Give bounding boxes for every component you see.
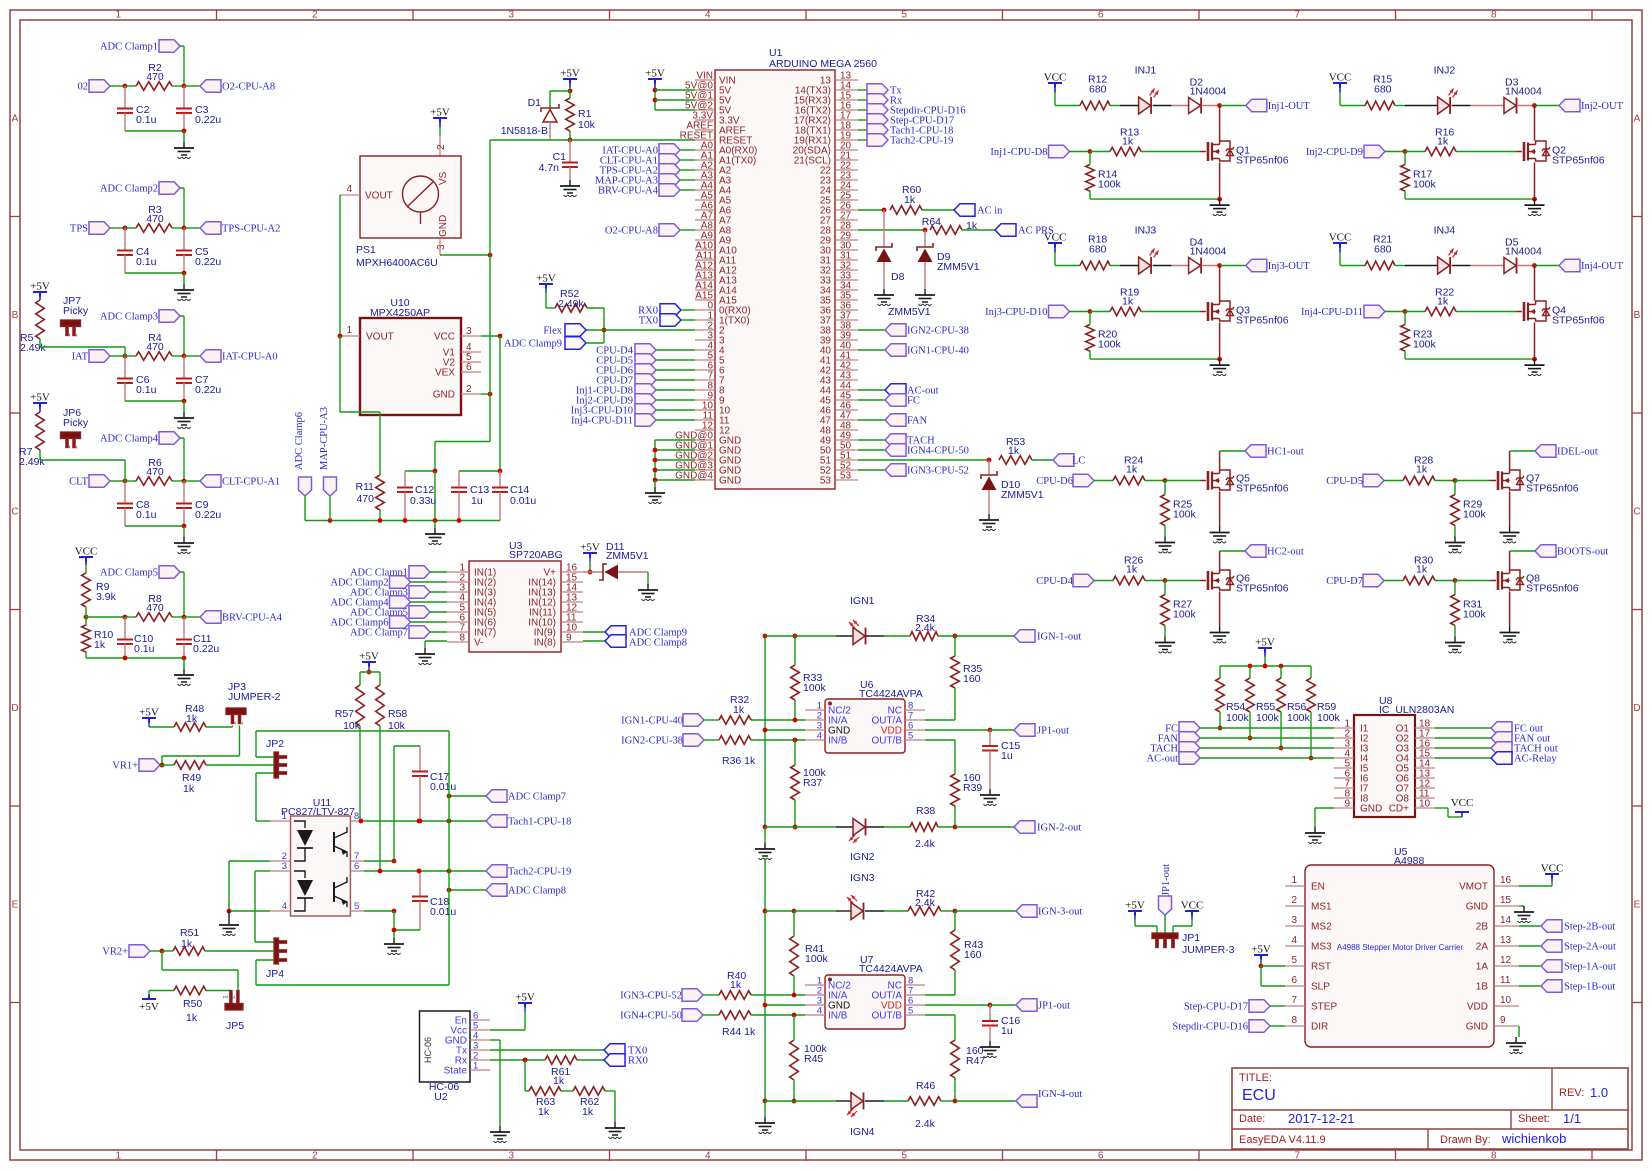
svg-text:STP65nf06: STP65nf06 xyxy=(1236,583,1289,595)
svg-text:JP4: JP4 xyxy=(266,968,284,980)
svg-text:GND: GND xyxy=(1466,1022,1488,1033)
svg-text:53: 53 xyxy=(840,471,852,482)
svg-text:CD+: CD+ xyxy=(1389,804,1409,815)
svg-text:VS: VS xyxy=(438,171,449,185)
svg-text:Picky: Picky xyxy=(63,417,89,429)
svg-text:+5V: +5V xyxy=(536,273,556,285)
svg-text:INJ4: INJ4 xyxy=(1434,225,1456,237)
svg-text:SLP: SLP xyxy=(1311,982,1330,993)
svg-text:B: B xyxy=(12,310,19,321)
svg-text:ADC Clamp7: ADC Clamp7 xyxy=(508,792,566,803)
svg-text:8: 8 xyxy=(1491,1151,1497,1162)
svg-text:4: 4 xyxy=(817,731,822,742)
svg-text:C: C xyxy=(11,506,18,517)
svg-text:13: 13 xyxy=(1500,935,1512,946)
svg-text:STP65nf06: STP65nf06 xyxy=(1236,315,1289,327)
svg-text:Date:: Date: xyxy=(1239,1113,1265,1125)
svg-text:BOOTS-out: BOOTS-out xyxy=(1557,547,1608,558)
svg-text:Inj3-CPU-D10: Inj3-CPU-D10 xyxy=(985,307,1047,318)
svg-text:1: 1 xyxy=(65,333,72,337)
svg-text:IGN-4-out: IGN-4-out xyxy=(1038,1089,1082,1100)
svg-text:680: 680 xyxy=(1374,84,1392,96)
svg-text:ADC Clamp2: ADC Clamp2 xyxy=(100,184,158,195)
svg-text:100k: 100k xyxy=(803,682,827,694)
svg-text:VR1+: VR1+ xyxy=(112,761,138,772)
svg-text:TX0: TX0 xyxy=(639,316,658,327)
svg-text:IN(8): IN(8) xyxy=(534,638,556,649)
svg-text:Inj1-OUT: Inj1-OUT xyxy=(1268,101,1311,112)
svg-text:STP65nf06: STP65nf06 xyxy=(1526,483,1579,495)
svg-text:1k: 1k xyxy=(1416,464,1428,476)
svg-text:5: 5 xyxy=(908,731,913,742)
svg-text:ADC Clamp6: ADC Clamp6 xyxy=(294,412,305,470)
svg-text:V-: V- xyxy=(474,638,483,649)
svg-text:2: 2 xyxy=(1291,895,1297,906)
svg-text:1k: 1k xyxy=(1126,464,1138,476)
svg-text:15: 15 xyxy=(1500,895,1512,906)
svg-text:470: 470 xyxy=(146,213,164,225)
svg-text:ADC Clamp7: ADC Clamp7 xyxy=(350,628,408,639)
svg-text:Inj1-CPU-D8: Inj1-CPU-D8 xyxy=(990,147,1047,158)
svg-text:0.1u: 0.1u xyxy=(134,643,155,655)
svg-text:A4988: A4988 xyxy=(1394,855,1425,867)
svg-text:0.01u: 0.01u xyxy=(430,781,456,793)
svg-text:R39: R39 xyxy=(963,782,982,794)
svg-text:INJ2: INJ2 xyxy=(1434,65,1456,77)
svg-text:ADC Clamp8: ADC Clamp8 xyxy=(629,638,687,649)
svg-text:Step-2B-out: Step-2B-out xyxy=(1564,922,1615,933)
svg-text:wichienkob: wichienkob xyxy=(1501,1131,1566,1146)
svg-text:TPS-CPU-A2: TPS-CPU-A2 xyxy=(222,224,280,235)
svg-text:EasyEDA V4.11.9: EasyEDA V4.11.9 xyxy=(1239,1134,1326,1146)
svg-text:R46: R46 xyxy=(916,1080,935,1092)
svg-text:5: 5 xyxy=(908,1006,913,1017)
svg-text:+5V: +5V xyxy=(139,1001,159,1013)
svg-text:JP1: JP1 xyxy=(1182,932,1200,944)
svg-text:2.4k: 2.4k xyxy=(915,1118,936,1130)
svg-text:9: 9 xyxy=(1344,799,1350,810)
svg-text:Step-1A-out: Step-1A-out xyxy=(1564,962,1616,973)
svg-text:1k: 1k xyxy=(186,1012,198,1024)
svg-text:0.1u: 0.1u xyxy=(136,509,157,521)
svg-text:4: 4 xyxy=(817,1006,822,1017)
svg-text:Stepdir-CPU-D16: Stepdir-CPU-D16 xyxy=(1172,1022,1248,1033)
svg-text:100k: 100k xyxy=(1256,712,1280,724)
svg-text:PC827/LTV-827: PC827/LTV-827 xyxy=(281,806,355,818)
svg-text:ADC Clamp4: ADC Clamp4 xyxy=(100,434,159,445)
svg-text:4: 4 xyxy=(282,901,287,912)
svg-text:JUMPER-2: JUMPER-2 xyxy=(228,691,281,703)
svg-text:D: D xyxy=(11,703,18,714)
svg-text:BRV-CPU-A4: BRV-CPU-A4 xyxy=(222,613,283,624)
svg-text:6: 6 xyxy=(1098,10,1104,21)
svg-text:1B: 1B xyxy=(1476,982,1489,993)
svg-text:0.22u: 0.22u xyxy=(195,509,221,521)
svg-text:1k: 1k xyxy=(733,704,745,716)
svg-text:R44 1k: R44 1k xyxy=(722,1026,756,1038)
svg-text:EN: EN xyxy=(1311,882,1325,893)
svg-text:DIR: DIR xyxy=(1311,1022,1328,1033)
svg-text:FC: FC xyxy=(907,396,920,407)
svg-text:7: 7 xyxy=(1291,995,1297,1006)
svg-text:VCC: VCC xyxy=(1451,797,1474,809)
svg-text:4: 4 xyxy=(346,184,352,195)
svg-text:1k: 1k xyxy=(183,783,195,795)
svg-text:ADC Clamp9: ADC Clamp9 xyxy=(504,339,562,350)
svg-text:11: 11 xyxy=(1500,975,1511,986)
svg-text:R45: R45 xyxy=(804,1053,823,1065)
svg-text:10k: 10k xyxy=(578,119,596,131)
svg-text:IGN2: IGN2 xyxy=(850,851,875,863)
svg-text:O2-CPU-A8: O2-CPU-A8 xyxy=(222,82,275,93)
svg-text:0.1u: 0.1u xyxy=(136,256,157,268)
svg-text:HC2-out: HC2-out xyxy=(1267,547,1304,558)
svg-text:1k: 1k xyxy=(186,713,198,725)
svg-text:CPU-D7: CPU-D7 xyxy=(1326,576,1363,587)
svg-text:1k: 1k xyxy=(1437,296,1449,308)
svg-text:ADC Clamp5: ADC Clamp5 xyxy=(100,568,158,579)
svg-text:AC in: AC in xyxy=(977,206,1003,217)
svg-text:PS1: PS1 xyxy=(356,244,376,256)
svg-text:4: 4 xyxy=(1291,935,1297,946)
svg-text:U2: U2 xyxy=(434,1091,448,1103)
svg-text:4: 4 xyxy=(705,10,711,21)
svg-text:IGN-1-out: IGN-1-out xyxy=(1037,632,1081,643)
svg-text:2B: 2B xyxy=(1476,922,1489,933)
svg-text:1k: 1k xyxy=(94,639,106,651)
svg-text:100k: 100k xyxy=(1098,339,1122,351)
svg-text:Inj4-OUT: Inj4-OUT xyxy=(1581,261,1624,272)
svg-text:IDEL-out: IDEL-out xyxy=(1557,447,1598,458)
svg-text:IGN3-CPU-52: IGN3-CPU-52 xyxy=(907,466,969,477)
svg-text:CPU-D4: CPU-D4 xyxy=(1036,576,1074,587)
svg-text:1N4004: 1N4004 xyxy=(1190,86,1227,98)
svg-text:IC_ULN2803AN: IC_ULN2803AN xyxy=(1379,704,1454,716)
svg-text:100k: 100k xyxy=(1287,712,1311,724)
svg-text:02: 02 xyxy=(78,82,89,93)
svg-text:10k: 10k xyxy=(388,720,406,732)
svg-text:HC1-out: HC1-out xyxy=(1267,447,1304,458)
svg-text:1N5818-B: 1N5818-B xyxy=(501,125,548,137)
svg-text:BRV-CPU-A4: BRV-CPU-A4 xyxy=(598,186,659,197)
svg-text:1k: 1k xyxy=(1122,296,1134,308)
svg-text:IAT: IAT xyxy=(72,352,89,363)
svg-text:1: 1 xyxy=(346,325,352,336)
svg-text:IN/B: IN/B xyxy=(828,736,848,747)
svg-text:1: 1 xyxy=(282,811,287,822)
svg-text:R64: R64 xyxy=(922,216,941,228)
svg-text:2.4k: 2.4k xyxy=(915,838,936,850)
svg-text:2.49k: 2.49k xyxy=(558,298,584,310)
svg-text:D1: D1 xyxy=(528,97,542,109)
svg-text:R58: R58 xyxy=(388,708,407,720)
svg-text:IGN1-CPU-40: IGN1-CPU-40 xyxy=(907,346,969,357)
svg-text:3: 3 xyxy=(508,1151,514,1162)
svg-text:REV:: REV: xyxy=(1559,1087,1584,1099)
svg-text:FAN: FAN xyxy=(907,416,928,427)
svg-text:STP65nf06: STP65nf06 xyxy=(1236,155,1289,167)
svg-text:VCC: VCC xyxy=(434,332,455,343)
svg-text:680: 680 xyxy=(1089,244,1107,256)
svg-text:+5V: +5V xyxy=(30,392,50,404)
svg-text:470: 470 xyxy=(146,466,164,478)
svg-text:1k: 1k xyxy=(553,1075,565,1087)
svg-text:Drawn By:: Drawn By: xyxy=(1440,1134,1491,1146)
svg-text:2017-12-21: 2017-12-21 xyxy=(1288,1111,1355,1126)
svg-text:2.49k: 2.49k xyxy=(20,342,46,354)
svg-text:STEP: STEP xyxy=(1311,1002,1337,1013)
svg-text:R37: R37 xyxy=(803,777,822,789)
svg-text:TC4424AVPA: TC4424AVPA xyxy=(859,688,923,700)
svg-text:Inj2-OUT: Inj2-OUT xyxy=(1581,101,1624,112)
svg-text:+5V: +5V xyxy=(30,281,50,293)
svg-text:100k: 100k xyxy=(1413,179,1437,191)
svg-text:MPX4250AP: MPX4250AP xyxy=(370,307,430,319)
svg-text:470: 470 xyxy=(356,493,374,505)
svg-text:8: 8 xyxy=(1491,10,1497,21)
svg-text:2: 2 xyxy=(436,144,447,150)
svg-text:7: 7 xyxy=(1294,10,1300,21)
svg-text:STP65nf06: STP65nf06 xyxy=(1552,315,1605,327)
svg-text:VEX: VEX xyxy=(435,368,455,379)
svg-text:Inj3-OUT: Inj3-OUT xyxy=(1268,261,1311,272)
svg-text:IGN-2-out: IGN-2-out xyxy=(1037,823,1081,834)
svg-text:SP720ABG: SP720ABG xyxy=(509,549,563,561)
svg-text:IGN4: IGN4 xyxy=(850,1126,875,1138)
svg-text:0.01u: 0.01u xyxy=(430,906,456,918)
svg-text:3: 3 xyxy=(466,326,472,337)
svg-text:VOUT: VOUT xyxy=(366,332,394,343)
svg-text:100k: 100k xyxy=(1317,712,1341,724)
svg-text:IGN4-CPU-50: IGN4-CPU-50 xyxy=(620,1011,682,1022)
svg-text:GND: GND xyxy=(438,215,449,237)
svg-text:+5V: +5V xyxy=(139,707,159,719)
svg-text:0.22u: 0.22u xyxy=(195,384,221,396)
svg-text:4: 4 xyxy=(705,1151,711,1162)
svg-text:0.33u: 0.33u xyxy=(410,495,436,507)
svg-text:470: 470 xyxy=(146,71,164,83)
svg-text:JP1-out: JP1-out xyxy=(1161,864,1172,896)
svg-text:ZMM5V1: ZMM5V1 xyxy=(1001,489,1044,501)
svg-text:RST: RST xyxy=(1311,962,1331,973)
svg-text:JUMPER-3: JUMPER-3 xyxy=(1182,944,1235,956)
svg-text:R11: R11 xyxy=(356,481,375,493)
svg-text:100k: 100k xyxy=(1463,509,1487,521)
svg-text:12: 12 xyxy=(1500,955,1512,966)
svg-text:680: 680 xyxy=(1374,244,1392,256)
svg-text:OUT/B: OUT/B xyxy=(871,736,902,747)
svg-text:8: 8 xyxy=(459,633,465,644)
svg-text:MS2: MS2 xyxy=(1311,922,1332,933)
svg-text:1k: 1k xyxy=(1416,564,1428,576)
svg-text:1N4004: 1N4004 xyxy=(1505,246,1542,258)
svg-text:AC-Relay: AC-Relay xyxy=(1514,754,1557,765)
svg-text:JP1-out: JP1-out xyxy=(1038,1001,1070,1012)
svg-text:0.22u: 0.22u xyxy=(193,643,219,655)
svg-text:1k: 1k xyxy=(1008,445,1020,457)
svg-text:TITLE:: TITLE: xyxy=(1239,1072,1272,1084)
svg-text:IGN1: IGN1 xyxy=(850,595,875,607)
svg-text:MS3: MS3 xyxy=(1311,942,1332,953)
svg-text:D: D xyxy=(1633,703,1640,714)
svg-text:A4988 Stepper Motor Driver Car: A4988 Stepper Motor Driver Carrier xyxy=(1337,943,1464,952)
svg-text:6: 6 xyxy=(1291,975,1297,986)
svg-text:CPU-D5: CPU-D5 xyxy=(1326,476,1363,487)
svg-text:GND: GND xyxy=(719,476,741,487)
svg-text:Sheet:: Sheet: xyxy=(1518,1113,1550,1125)
svg-text:JP5: JP5 xyxy=(226,1020,244,1032)
svg-text:ADC Clamp8: ADC Clamp8 xyxy=(508,886,566,897)
svg-text:VMOT: VMOT xyxy=(1459,882,1488,893)
svg-text:1k: 1k xyxy=(582,1106,594,1118)
svg-text:470: 470 xyxy=(146,341,164,353)
svg-text:Picky: Picky xyxy=(63,305,89,317)
svg-text:2: 2 xyxy=(312,1151,318,1162)
svg-text:MAP-CPU-A3: MAP-CPU-A3 xyxy=(319,407,330,470)
svg-text:1: 1 xyxy=(115,1151,121,1162)
svg-text:10k: 10k xyxy=(343,720,361,732)
svg-text:HC-06: HC-06 xyxy=(423,1037,433,1063)
svg-text:2.4k: 2.4k xyxy=(915,897,936,909)
svg-text:2: 2 xyxy=(230,995,237,999)
svg-text:VOUT: VOUT xyxy=(365,191,393,202)
svg-text:1: 1 xyxy=(473,1061,478,1072)
svg-text:O2-CPU-A8: O2-CPU-A8 xyxy=(605,226,658,237)
svg-text:1: 1 xyxy=(115,10,121,21)
svg-text:TPS: TPS xyxy=(70,224,88,235)
svg-text:GND: GND xyxy=(433,390,455,401)
svg-text:VCC: VCC xyxy=(1044,232,1067,244)
svg-text:Tach1-CPU-18: Tach1-CPU-18 xyxy=(508,817,571,828)
svg-text:IGN-3-out: IGN-3-out xyxy=(1038,907,1082,918)
svg-text:1: 1 xyxy=(65,445,72,449)
svg-text:OUT/B: OUT/B xyxy=(871,1011,902,1022)
svg-text:1: 1 xyxy=(1291,875,1297,886)
svg-text:2: 2 xyxy=(72,333,79,337)
svg-text:+5V: +5V xyxy=(1255,637,1275,649)
svg-text:3: 3 xyxy=(1291,915,1297,926)
svg-text:0.22u: 0.22u xyxy=(195,256,221,268)
svg-text:16: 16 xyxy=(1500,875,1512,886)
svg-text:E: E xyxy=(12,899,19,910)
svg-text:R47: R47 xyxy=(966,1055,985,1067)
svg-text:STP65nf06: STP65nf06 xyxy=(1552,155,1605,167)
svg-text:IGN1-CPU-40: IGN1-CPU-40 xyxy=(621,716,683,727)
svg-text:3.9k: 3.9k xyxy=(96,591,117,603)
svg-text:100k: 100k xyxy=(1226,712,1250,724)
svg-text:R36 1k: R36 1k xyxy=(722,755,756,767)
svg-text:100k: 100k xyxy=(1173,609,1197,621)
svg-text:3: 3 xyxy=(508,10,514,21)
svg-text:470: 470 xyxy=(146,602,164,614)
svg-text:2.4k: 2.4k xyxy=(915,622,936,634)
svg-text:MS1: MS1 xyxy=(1311,902,1332,913)
svg-text:A: A xyxy=(1634,113,1641,124)
svg-text:100k: 100k xyxy=(1463,609,1487,621)
svg-text:1k: 1k xyxy=(181,938,193,950)
svg-text:VCC: VCC xyxy=(1329,72,1352,84)
svg-text:6: 6 xyxy=(354,861,359,872)
svg-text:1k: 1k xyxy=(904,194,916,206)
svg-text:1k: 1k xyxy=(1122,136,1134,148)
svg-text:10: 10 xyxy=(1500,995,1512,1006)
svg-text:1/1: 1/1 xyxy=(1563,1111,1581,1126)
svg-text:+5V: +5V xyxy=(1125,900,1145,912)
svg-text:Flex: Flex xyxy=(543,326,562,337)
svg-text:14: 14 xyxy=(1500,915,1512,926)
svg-text:1k: 1k xyxy=(538,1106,550,1118)
svg-text:5: 5 xyxy=(901,1151,907,1162)
svg-text:+5V: +5V xyxy=(515,992,535,1004)
svg-text:680: 680 xyxy=(1089,84,1107,96)
svg-text:ZMM5V1: ZMM5V1 xyxy=(937,261,980,273)
svg-text:5: 5 xyxy=(901,10,907,21)
svg-text:160: 160 xyxy=(964,949,982,961)
svg-text:Step-CPU-D17: Step-CPU-D17 xyxy=(1184,1002,1248,1013)
svg-text:D8: D8 xyxy=(891,271,905,283)
svg-text:GND: GND xyxy=(1360,804,1382,815)
svg-text:VR2+: VR2+ xyxy=(102,947,128,958)
svg-text:ZMM5V1: ZMM5V1 xyxy=(606,550,649,562)
svg-text:3: 3 xyxy=(436,244,447,250)
svg-text:Inj2-CPU-D9: Inj2-CPU-D9 xyxy=(1306,147,1363,158)
svg-text:0.22u: 0.22u xyxy=(195,114,221,126)
svg-text:State: State xyxy=(444,1066,468,1077)
svg-text:IAT-CPU-A0: IAT-CPU-A0 xyxy=(222,352,278,363)
svg-text:Tach2-CPU-19: Tach2-CPU-19 xyxy=(890,136,953,147)
svg-text:VCC: VCC xyxy=(1541,863,1564,875)
svg-text:2: 2 xyxy=(466,384,472,395)
svg-text:160: 160 xyxy=(963,673,981,685)
svg-text:Step-2A-out: Step-2A-out xyxy=(1564,942,1616,953)
svg-text:1k: 1k xyxy=(1126,564,1138,576)
svg-text:VCC: VCC xyxy=(1044,72,1067,84)
svg-text:B: B xyxy=(1634,310,1641,321)
svg-text:JP2: JP2 xyxy=(266,738,284,750)
svg-text:CLT: CLT xyxy=(69,477,88,488)
svg-text:STP65nf06: STP65nf06 xyxy=(1236,483,1289,495)
svg-text:A: A xyxy=(12,113,19,124)
svg-text:100k: 100k xyxy=(1173,509,1197,521)
svg-text:7: 7 xyxy=(1294,1151,1300,1162)
svg-text:1: 1 xyxy=(223,995,230,999)
svg-text:IGN3: IGN3 xyxy=(850,872,875,884)
svg-text:RX0: RX0 xyxy=(628,1056,648,1067)
svg-text:1N4004: 1N4004 xyxy=(1505,86,1542,98)
svg-text:10: 10 xyxy=(1419,799,1431,810)
svg-text:TC4424AVPA: TC4424AVPA xyxy=(859,963,923,975)
svg-text:+5V: +5V xyxy=(580,542,600,554)
svg-text:R50: R50 xyxy=(183,998,202,1010)
svg-text:CLT-CPU-A1: CLT-CPU-A1 xyxy=(222,477,280,488)
svg-text:E: E xyxy=(1634,899,1641,910)
svg-text:2: 2 xyxy=(312,10,318,21)
svg-text:ADC Clamp3: ADC Clamp3 xyxy=(100,312,158,323)
svg-text:MPXH6400AC6U: MPXH6400AC6U xyxy=(356,257,438,269)
svg-text:VCC: VCC xyxy=(1181,900,1204,912)
svg-text:0.1u: 0.1u xyxy=(136,384,157,396)
svg-text:0.1u: 0.1u xyxy=(136,114,157,126)
svg-text:2: 2 xyxy=(237,721,244,725)
svg-text:ADC Clamp1: ADC Clamp1 xyxy=(100,42,158,53)
svg-text:1u: 1u xyxy=(1001,1025,1013,1037)
svg-text:CPU-D6: CPU-D6 xyxy=(1036,476,1073,487)
svg-text:1A: 1A xyxy=(1476,962,1489,973)
svg-text:IGN2-CPU-38: IGN2-CPU-38 xyxy=(621,736,683,747)
svg-text:R57: R57 xyxy=(335,708,354,720)
svg-text:8: 8 xyxy=(1291,1015,1297,1026)
svg-text:LC: LC xyxy=(1072,456,1085,467)
